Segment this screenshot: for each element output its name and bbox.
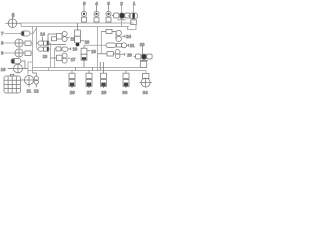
svg-text:34: 34 <box>143 90 149 95</box>
svg-text:29: 29 <box>101 90 107 95</box>
wire <box>21 61 25 69</box>
svg-text:8: 8 <box>1 41 4 46</box>
svg-text:24: 24 <box>126 34 131 39</box>
svg-text:11: 11 <box>27 88 32 93</box>
connector X23 <box>140 61 146 67</box>
wire <box>5 33 22 35</box>
svg-text:12: 12 <box>34 88 39 93</box>
branch resistor R21 <box>106 43 129 48</box>
motor M11 circle-cross <box>24 75 33 84</box>
connector box X1 <box>131 20 137 25</box>
wire <box>121 5 123 13</box>
switch S2 three-segment <box>112 13 130 20</box>
fuse F4 <box>94 11 99 22</box>
svg-text:1: 1 <box>133 1 136 6</box>
svg-text:30: 30 <box>122 90 128 95</box>
wire vertical V4 <box>54 49 56 68</box>
wire vertical V3 <box>50 43 52 68</box>
svg-text:21: 21 <box>130 43 135 48</box>
ladder stem S1 <box>97 27 99 71</box>
svg-text:19: 19 <box>1 67 6 72</box>
wire rung <box>84 44 106 46</box>
wire <box>133 19 135 20</box>
wire <box>8 68 14 70</box>
connector X9 <box>25 51 31 56</box>
bus1 <box>21 22 134 24</box>
svg-text:27: 27 <box>87 90 93 95</box>
fuse F3 <box>106 11 111 22</box>
svg-text:10: 10 <box>85 39 90 44</box>
svg-text:16: 16 <box>73 46 78 51</box>
wire right loop <box>128 25 137 30</box>
vertical bus V2 <box>36 27 38 49</box>
wire <box>42 37 44 42</box>
wire <box>28 62 33 75</box>
svg-text:20: 20 <box>127 53 132 58</box>
fuse F5 <box>82 11 87 22</box>
svg-text:4: 4 <box>95 1 98 6</box>
svg-text:26: 26 <box>70 90 76 95</box>
relay K10 column <box>75 23 84 46</box>
switch S23 three-segment <box>134 54 153 60</box>
svg-text:13: 13 <box>43 54 48 59</box>
fuse F26 column <box>69 68 76 89</box>
wire <box>83 5 85 11</box>
bus2 <box>21 26 129 28</box>
wire <box>96 5 98 11</box>
wire to connector 12 <box>33 73 37 76</box>
wire <box>23 42 32 44</box>
wire left bus tie <box>20 23 22 27</box>
svg-text:2: 2 <box>120 1 123 6</box>
svg-text:17: 17 <box>71 57 76 62</box>
lamp B19 circle-cross <box>14 64 23 73</box>
lamp B8 circle-cross <box>15 39 23 47</box>
switch S17 <box>51 53 71 63</box>
svg-text:9: 9 <box>1 51 4 56</box>
wire <box>120 53 125 56</box>
wire <box>5 52 15 54</box>
wire <box>121 19 123 27</box>
wire bus B corner <box>145 71 147 74</box>
wire <box>141 46 143 54</box>
connector X8 <box>25 41 31 46</box>
wire <box>29 84 36 87</box>
wire <box>5 42 15 44</box>
heater grid R31 <box>4 74 21 93</box>
wire <box>67 37 69 39</box>
fuse F27 column <box>86 68 93 89</box>
svg-text:5: 5 <box>83 1 86 6</box>
svg-text:7: 7 <box>1 31 4 36</box>
sensor B7 oval <box>21 31 30 36</box>
connector X12 double circle <box>34 76 38 84</box>
ignition unit U1 <box>128 13 138 19</box>
lamp B6 circle-cross <box>5 19 21 28</box>
switch S11 body <box>48 31 67 44</box>
wire <box>23 52 32 54</box>
vertical bus V1 <box>32 27 34 74</box>
svg-text:14: 14 <box>40 32 45 37</box>
lamp B9 circle-cross <box>15 49 23 57</box>
svg-text:3: 3 <box>107 1 110 6</box>
wire <box>22 68 28 70</box>
fuse row F16 <box>55 47 71 51</box>
branch lamp L22 <box>98 50 121 59</box>
fuse F30 column <box>123 71 129 89</box>
wire <box>108 5 110 11</box>
wire <box>121 35 125 38</box>
wire <box>133 5 135 13</box>
relay K18 column <box>81 45 90 67</box>
wire <box>12 17 14 20</box>
svg-text:18: 18 <box>91 49 96 54</box>
bus A lower <box>33 67 141 69</box>
branch lamp L24a <box>101 29 121 41</box>
bus B lower <box>28 70 146 72</box>
wire <box>143 60 145 62</box>
wire tie <box>48 68 50 71</box>
motor M34 circle-cross <box>140 78 152 87</box>
wire <box>30 28 37 34</box>
ladder stem S2 <box>100 32 102 54</box>
fuse row F14a <box>37 41 51 45</box>
lamp B15 oval <box>11 59 21 64</box>
fuse row F14b <box>37 47 51 51</box>
svg-text:23: 23 <box>140 42 145 47</box>
wire <box>21 79 25 81</box>
connector X34 <box>143 73 149 78</box>
fuse F29 column <box>100 62 106 88</box>
